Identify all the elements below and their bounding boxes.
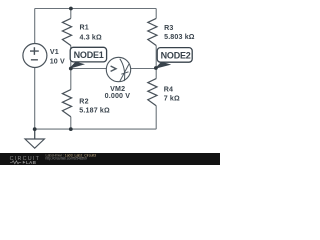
- wire top horizontal: [35, 8, 157, 10]
- svg-text:NODE2: NODE2: [161, 50, 191, 60]
- wire node1 to voltmeter: [71, 68, 107, 70]
- svg-text:R4: R4: [164, 86, 173, 94]
- wire right branch vertical (R3/R4 leads): [155, 9, 157, 130]
- svg-text:5.187 kΩ: 5.187 kΩ: [79, 106, 110, 114]
- wire left branch vertical (V1 branch): [34, 9, 36, 139]
- wire bottom horizontal: [35, 128, 157, 130]
- svg-text:LAB: LAB: [26, 160, 37, 165]
- resistor R4: [148, 79, 157, 106]
- svg-text:http://circuitlab.com/c/548zu9: http://circuitlab.com/c/548zu9: [46, 157, 88, 161]
- svg-text:NODE1: NODE1: [74, 50, 104, 60]
- voltmeter VM2: [106, 57, 130, 81]
- wire voltmeter to node2: [131, 68, 157, 70]
- junction dot bottom left (ground tap): [33, 127, 37, 131]
- node NODE1 flag: [69, 47, 107, 69]
- resistor R1: [62, 18, 71, 45]
- node NODE2 flag: [155, 48, 193, 69]
- resistor R2: [62, 90, 71, 117]
- footer logo LAB with zigzag: [10, 161, 21, 164]
- svg-text:7 kΩ: 7 kΩ: [164, 94, 180, 102]
- junction dot top of R1 branch: [69, 7, 73, 11]
- svg-text:R2: R2: [79, 97, 88, 105]
- svg-text:V1: V1: [50, 48, 59, 56]
- voltage source V1: [23, 44, 47, 68]
- svg-text:10 V: 10 V: [50, 58, 65, 66]
- svg-text:4.3 kΩ: 4.3 kΩ: [80, 33, 103, 41]
- junction dot node1: [69, 67, 73, 71]
- ground: [25, 129, 44, 148]
- resistor R3: [148, 18, 157, 45]
- svg-text:R1: R1: [80, 24, 89, 32]
- footer bar: [0, 153, 220, 165]
- wire middle branch vertical (R1/R2 leads): [70, 9, 72, 130]
- junction dot bottom of R2 branch: [69, 127, 73, 131]
- svg-text:0.000 V: 0.000 V: [105, 92, 131, 100]
- svg-text:5.803 kΩ: 5.803 kΩ: [164, 33, 195, 41]
- svg-text:R3: R3: [164, 24, 173, 32]
- junction dot node2: [154, 66, 158, 70]
